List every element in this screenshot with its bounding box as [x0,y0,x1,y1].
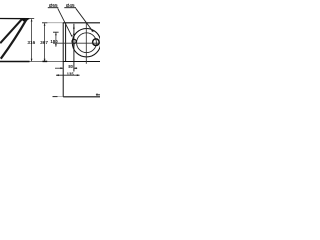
horizontal centerline [53,42,100,44]
dim 316 extension bar [29,18,34,20]
ext arrow up [73,26,75,29]
svg-text:Ø45: Ø45 [66,3,75,8]
svg-text:Ø55: Ø55 [49,3,58,8]
plate top edge extension to dim [47,22,62,24]
svg-text:80: 80 [68,64,73,69]
plate top edge [63,22,100,24]
dim 135 left arrow [56,74,59,76]
dim 367 top arrow [44,23,46,26]
dim 316 bottom arrow [31,59,33,62]
flange circle [72,29,100,57]
dim 367 bottom arrow [44,59,46,62]
funnel outer wall [1,19,27,59]
funnel top rim line [0,18,29,20]
title block border bottom [63,96,100,98]
bolt hole extension line [73,24,75,72]
corner mark [96,94,98,96]
right bolt hole [93,39,100,46]
svg-text:367: 367 [40,40,48,45]
dim 80 left arrow [60,67,63,69]
ext arrow down [73,34,75,37]
funnel outlet bottom line [0,61,30,63]
dim 316 line [31,19,33,61]
leader O55 [58,8,72,36]
dim 367 line [44,23,46,61]
dim 180 top arrow [55,33,57,36]
plate left edge outer [62,23,64,97]
dim 180 bottom arrow [55,44,57,47]
dim 135 line [56,74,80,76]
ext arrow down low [73,45,75,48]
svg-text:316: 316 [27,40,35,45]
left bolt hole [72,39,76,43]
vertical centerline [85,23,87,64]
funnel inner wall [0,19,22,43]
leader O45 [76,8,93,31]
dim 367 bottom bar [43,60,48,62]
plate bottom edge [63,61,100,63]
funnel rim wedge tip [20,18,30,22]
bolt circle [77,33,97,53]
plate left edge inner [65,23,67,62]
dim 135 right arrow [77,74,80,76]
dim 80 left line [55,67,63,69]
baseline thin extension [30,61,101,63]
dim 180 line [55,32,57,46]
dim 180 top bar [53,31,59,33]
svg-text:135: 135 [67,71,75,76]
dim 316 top arrow [31,19,33,22]
border faint link [58,96,64,98]
border stub left [53,96,58,98]
svg-text:180: 180 [50,39,58,44]
dim 80 right line [74,67,77,69]
dim 80 right arrow [74,67,77,69]
dim 367 top bar [42,22,47,24]
